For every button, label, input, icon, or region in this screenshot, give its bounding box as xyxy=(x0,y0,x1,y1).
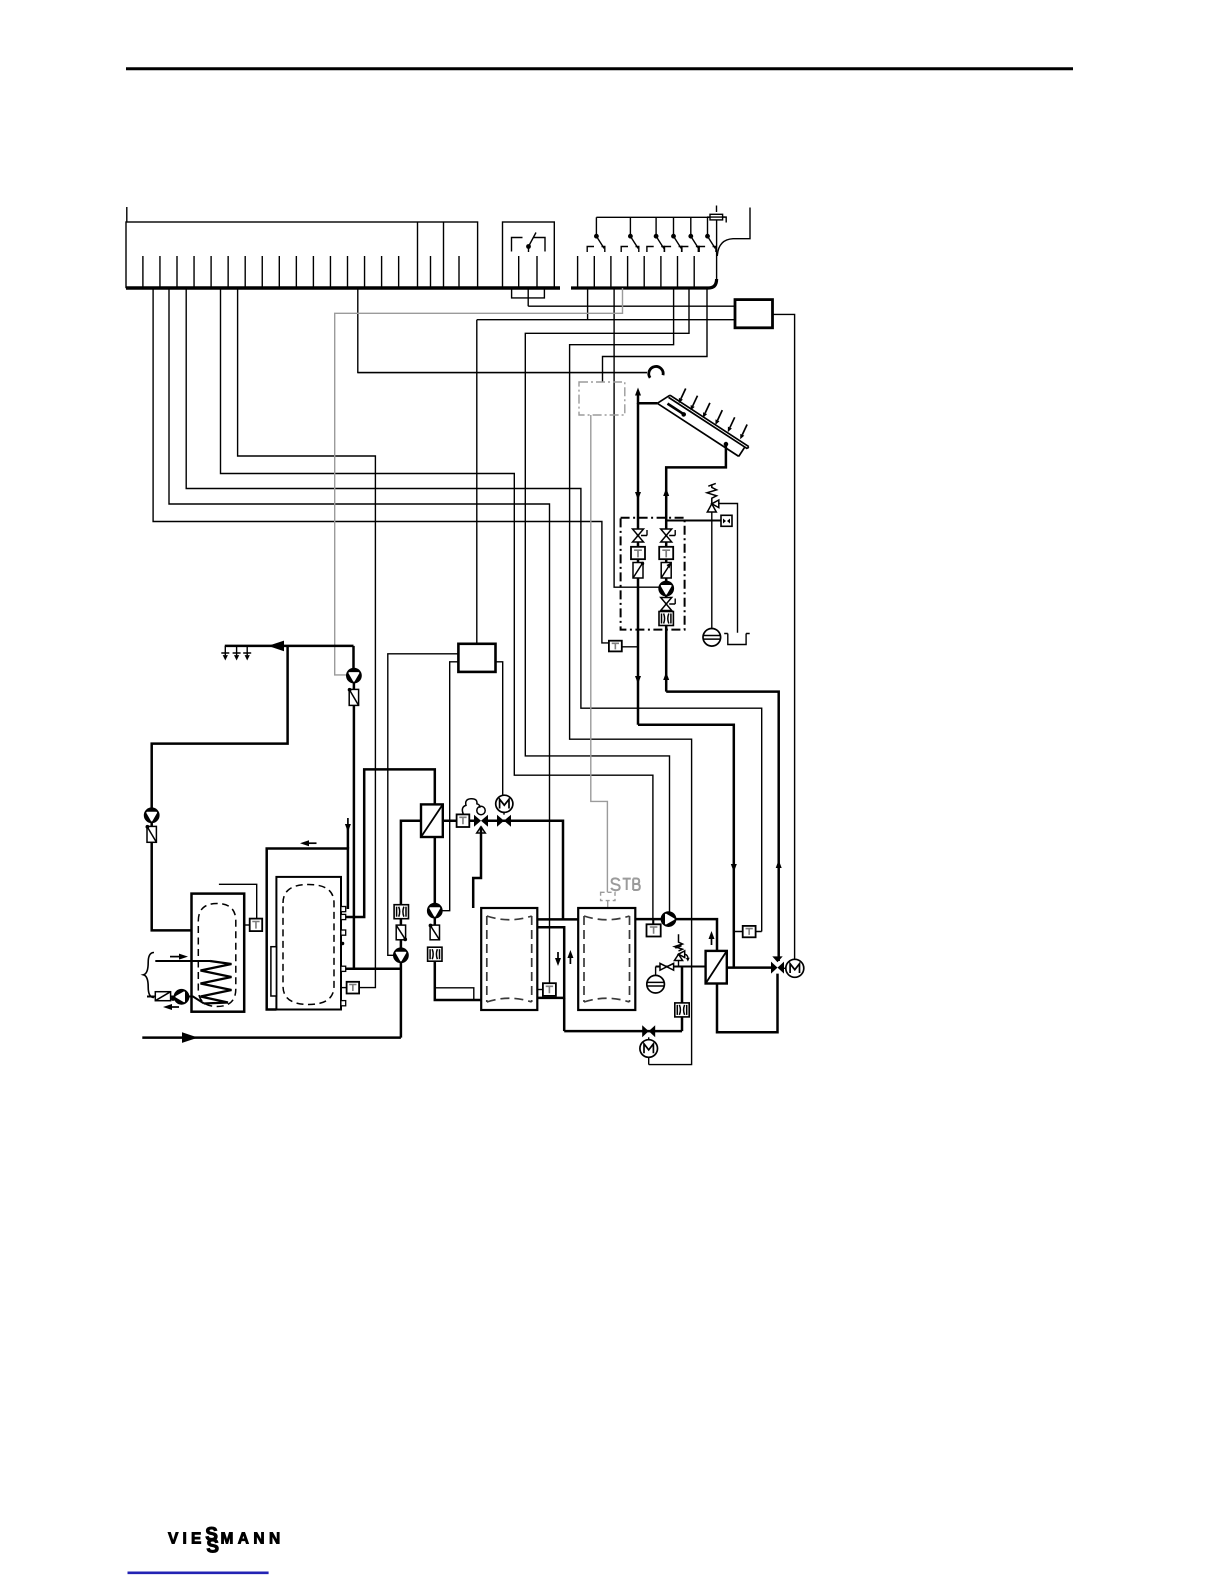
solar coil inlet xyxy=(155,960,210,962)
terminal ticks row1 xyxy=(143,256,459,288)
mixer bottom pipe to tank3 top xyxy=(473,827,481,908)
return pump xyxy=(174,990,188,1004)
riser to safety line xyxy=(681,967,684,1032)
manifold arrow left xyxy=(268,641,284,652)
tank2 internal plate xyxy=(271,947,277,996)
gray wire STB module to STB contact tank4 xyxy=(591,415,608,892)
manifold flow pipe to tank1 xyxy=(352,646,355,669)
wire ext box aux xyxy=(442,662,458,911)
STB contact dashed box xyxy=(601,892,615,900)
safety valve riser xyxy=(711,512,713,521)
STB contact stub xyxy=(607,901,609,908)
cold water arrow xyxy=(182,1032,198,1043)
safety discharge pipe xyxy=(720,504,738,633)
jacket stub arrow xyxy=(345,818,351,832)
collector supply pipe with up arrow xyxy=(637,403,640,725)
motor valve Ma xyxy=(496,795,513,827)
tank4 right pipe xyxy=(635,919,717,951)
solar flow meter xyxy=(659,612,673,626)
terminal box divider xyxy=(443,222,445,288)
wire sensor sun xyxy=(358,288,647,373)
sensor box stub to pipe xyxy=(622,646,638,648)
HX1 bottom flow meter xyxy=(428,947,442,961)
tee to tank2 xyxy=(344,968,401,971)
tank3 cylinder xyxy=(481,908,537,1010)
relay box K xyxy=(735,300,773,328)
solar return pipe lower run xyxy=(666,692,779,961)
collector return sensor box xyxy=(609,641,622,652)
relay contact 3 xyxy=(647,217,665,252)
switch box ticks xyxy=(519,256,537,288)
HX2 right pipe xyxy=(727,966,771,969)
drain tundish xyxy=(724,634,749,645)
top rule xyxy=(126,67,1073,70)
HX1 bottom pipe xyxy=(434,837,437,925)
svg-text:MANN: MANN xyxy=(221,1531,285,1548)
relay output strip bottom bus with curve xyxy=(571,279,717,288)
wire strip t5 to collector sensor xyxy=(153,288,609,643)
tank4 inner dashed xyxy=(584,916,630,1002)
inlet flow arrow xyxy=(170,954,188,960)
tank3 sensor stub xyxy=(537,989,543,991)
flow arrow up link xyxy=(567,950,573,964)
SEC1 terminal strips xyxy=(126,206,795,960)
tank2 ports xyxy=(341,907,346,1006)
tank2 jacket pipe xyxy=(267,849,348,1010)
fuse F1 xyxy=(707,206,726,223)
heating pipe into tank1 xyxy=(152,822,192,930)
HX1 right pipe xyxy=(443,819,474,822)
wire strip t2 to sensor tank4 xyxy=(221,288,653,924)
pipe tank2 to HX riser xyxy=(344,769,434,917)
motor M2 xyxy=(784,959,804,977)
wire strip t1 to sensor tank2 xyxy=(238,288,376,988)
solar station dash-dot box xyxy=(621,518,685,630)
HX1 feed filter xyxy=(394,905,408,919)
switch pivot dot xyxy=(526,244,531,249)
mixed flow pipe to tank3 riser xyxy=(488,821,563,920)
wire strip to relay box lower xyxy=(477,288,735,320)
pipe pump to tee xyxy=(400,962,403,1038)
supply thermometer xyxy=(631,547,645,559)
solar expansion vessel xyxy=(703,629,721,647)
brace solar connections xyxy=(144,953,155,998)
HX2 bottom loop xyxy=(717,974,778,1033)
link pipe down to bottom run xyxy=(563,998,566,1031)
three way valve M2 xyxy=(771,956,784,973)
loading pump xyxy=(394,948,408,962)
supply check valve xyxy=(633,562,644,578)
wire strip to extension box top xyxy=(476,320,478,644)
tank1 sensor box xyxy=(250,919,263,932)
sensor stubs xyxy=(734,931,762,933)
footer blue line xyxy=(128,1572,269,1575)
terminal box divider xyxy=(417,222,419,288)
tank4 outlet sensor xyxy=(647,919,661,936)
flow arrow up below station xyxy=(663,672,669,686)
tank3 sensor box xyxy=(543,983,556,996)
relay contact 6 xyxy=(698,217,716,252)
wire relay to motor M bottom xyxy=(570,288,692,1065)
SEC5 middle right tanks xyxy=(421,795,804,1064)
solar supply pipe lower run xyxy=(638,725,734,968)
wire ext box to mixer motor Ma xyxy=(496,662,503,795)
fuse lead down xyxy=(716,220,718,280)
safety valve right xyxy=(674,934,689,967)
pipe to tank3 lower left xyxy=(435,961,481,1000)
supply shutoff valve xyxy=(633,529,648,542)
flow arrow up collector supply xyxy=(635,388,641,402)
expansion vessel stub xyxy=(655,967,657,976)
tank3 inner dashed xyxy=(487,916,532,1002)
wire relay to pump HK via left loop xyxy=(525,288,689,913)
flow arrow up return above station xyxy=(663,488,669,502)
viessmann logo xyxy=(168,1525,285,1558)
sun rays xyxy=(679,389,686,404)
return shutoff valve xyxy=(661,529,676,542)
junction dot xyxy=(171,997,175,1001)
heating circuits manifold xyxy=(225,645,354,648)
plate heat exchanger HX2 xyxy=(706,951,727,984)
expansion vessel xyxy=(647,975,665,993)
STB label xyxy=(611,878,640,890)
tank1 sensor stub xyxy=(244,924,250,926)
tank1 DHW cylinder xyxy=(192,894,245,1012)
tank2 buffer cylinder xyxy=(276,877,341,1010)
controller terminal box xyxy=(126,222,478,288)
flow arrow up solar return lower xyxy=(776,860,782,874)
terminal strip bottom bus xyxy=(126,286,560,289)
thermostatic valve xyxy=(462,799,488,833)
wire loop at strip right xyxy=(717,208,750,257)
switch arm xyxy=(529,233,537,247)
switch contact symbol xyxy=(512,238,546,253)
discharge pump xyxy=(661,912,675,926)
solar coil xyxy=(201,961,232,1004)
tank4 cylinder xyxy=(578,908,635,1010)
heating circuit taps xyxy=(221,646,251,661)
collector panel xyxy=(657,392,748,458)
aux switch box xyxy=(503,222,555,288)
safety group shutoff valve xyxy=(660,963,674,970)
collector return pipe xyxy=(666,444,726,691)
wire ext box to pump heat exchanger xyxy=(388,654,459,956)
SEC4 left tanks xyxy=(142,641,435,1043)
solar supply sensor box xyxy=(743,926,756,937)
riser flow meter xyxy=(675,1003,689,1017)
HX1 feed pipe xyxy=(400,940,403,949)
safety group line xyxy=(656,966,706,968)
plate heat exchanger HX1 xyxy=(421,804,443,837)
sensor stub above tank1 xyxy=(219,884,257,918)
irradiation sensor xyxy=(649,366,663,377)
safety valve xyxy=(707,483,719,512)
terminal box left stub xyxy=(126,207,128,222)
HX1 bottom check valve xyxy=(428,904,442,918)
heating line filter xyxy=(146,825,157,842)
circulation check valve xyxy=(348,688,359,706)
wire to irradiation sensor xyxy=(358,372,647,374)
svg-text:S: S xyxy=(206,1537,219,1558)
flow arrow up HX2 feed xyxy=(709,931,715,945)
tank2 inner vessel dashed xyxy=(283,885,334,1005)
coil return to pump xyxy=(147,997,204,1004)
circulation pump xyxy=(347,669,361,683)
station top pipe xyxy=(666,520,721,522)
expansion vessel line xyxy=(711,521,713,629)
motor valve Mb xyxy=(640,1025,658,1064)
pump lower valve xyxy=(661,598,676,611)
relay contact 1 xyxy=(587,217,605,252)
wire relay to STB module xyxy=(603,288,708,382)
branch line xyxy=(436,988,474,999)
wire strip t3 to sensor solar flow xyxy=(186,288,762,932)
HX outlet sensor xyxy=(457,814,470,827)
collector connect top xyxy=(638,402,657,405)
wire relay to solar pump xyxy=(614,288,659,587)
cold water line xyxy=(142,1036,401,1039)
flow arrow left on jacket xyxy=(300,840,317,846)
flow arrow down solar supply lower xyxy=(731,858,737,872)
flow arrow down supply above station xyxy=(635,486,641,500)
wire switchbox to relay box xyxy=(528,305,735,307)
link pipe tanks upper xyxy=(538,918,578,921)
extension box xyxy=(458,644,495,672)
circulation pipe down xyxy=(353,683,356,969)
SEC3 solar collector and station xyxy=(358,366,782,967)
gray wire relay to circulation pump xyxy=(335,288,623,675)
bottom run to motor valve Mb xyxy=(564,1030,682,1033)
heating return pipe to tank1 upper xyxy=(152,646,288,808)
relay strip ticks xyxy=(578,256,695,288)
heating pump xyxy=(145,808,159,822)
wire relay box to M2 actuator xyxy=(773,314,795,959)
tank1 inner vessel dashed xyxy=(198,904,236,1007)
tank2 sensor box xyxy=(347,982,360,994)
relay contact 2 xyxy=(621,217,639,252)
relay contact 4 xyxy=(664,217,682,252)
return filter xyxy=(155,992,170,1001)
relay bus top xyxy=(596,216,710,218)
tank2 sensor stub xyxy=(341,987,347,989)
svg-text:VIE: VIE xyxy=(168,1531,206,1548)
SEC2 wires fan xyxy=(153,288,762,1065)
fill-drain gauge xyxy=(721,515,732,526)
flow arrow down below station xyxy=(635,670,641,684)
return check valve xyxy=(661,563,671,579)
relay contact 5 xyxy=(682,217,700,252)
return thermometer xyxy=(659,547,673,559)
link bracket under switch box xyxy=(512,288,545,306)
STB module dash-dot box xyxy=(579,382,625,415)
flow arrow down link xyxy=(555,952,561,966)
outlet flow arrow xyxy=(163,1004,179,1010)
solar pump xyxy=(659,582,673,596)
wire strip t4 to sensor tank3 xyxy=(169,288,550,983)
HX1 left pipe xyxy=(401,821,421,925)
link pipe tank3 stub xyxy=(538,927,564,998)
